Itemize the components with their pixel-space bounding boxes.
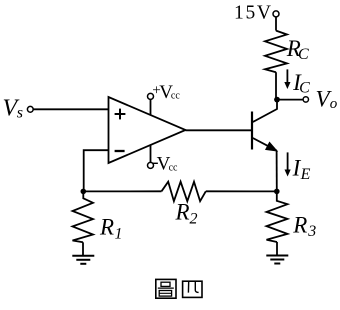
wire feedback from - input down to node B xyxy=(84,150,109,191)
node Vo xyxy=(303,87,338,113)
svg-text:o: o xyxy=(330,96,338,112)
svg-text:3: 3 xyxy=(307,223,316,240)
svg-text:15V: 15V xyxy=(234,3,273,24)
svg-text:R: R xyxy=(99,215,114,240)
wire R2 to node E xyxy=(206,190,277,192)
node junction collector xyxy=(274,97,280,103)
svg-text:cc: cc xyxy=(171,91,180,102)
wire emitter down to node E xyxy=(276,150,278,191)
current arrow IE xyxy=(285,152,311,183)
svg-text:s: s xyxy=(17,105,23,122)
power +Vcc xyxy=(148,82,181,115)
svg-text:C: C xyxy=(299,80,310,97)
resistor R1 xyxy=(73,191,123,242)
wire op-amp output to base xyxy=(186,129,253,131)
ground under R3 xyxy=(266,242,288,264)
svg-text:2: 2 xyxy=(190,211,198,228)
svg-text:C: C xyxy=(298,46,309,63)
wire Vs to op-amp + input xyxy=(33,108,108,110)
transistor Q1 xyxy=(252,100,277,151)
power -Vcc xyxy=(148,145,179,175)
svg-text:1: 1 xyxy=(115,226,123,243)
current arrow IC xyxy=(284,69,310,96)
resistor R3 xyxy=(267,191,317,242)
node junction B (left bottom) xyxy=(81,189,87,195)
ground under R1 xyxy=(72,242,94,263)
resistor RC xyxy=(265,31,309,73)
svg-text:cc: cc xyxy=(169,162,178,173)
svg-text:R: R xyxy=(292,212,307,237)
node Vs xyxy=(3,96,34,122)
resistor R2 xyxy=(162,182,206,228)
wire to Vo xyxy=(277,99,303,101)
svg-text:E: E xyxy=(300,166,311,183)
svg-text:R: R xyxy=(175,200,190,225)
wire 15V to RC xyxy=(275,17,277,31)
wire RC to collector node xyxy=(275,72,277,99)
wire node B to R2 xyxy=(83,190,161,192)
power 15V xyxy=(234,3,279,24)
node junction E (right bottom) xyxy=(274,189,280,195)
op-amp U1 xyxy=(109,97,186,163)
caption 圖四 (Figure 4) xyxy=(156,279,202,298)
